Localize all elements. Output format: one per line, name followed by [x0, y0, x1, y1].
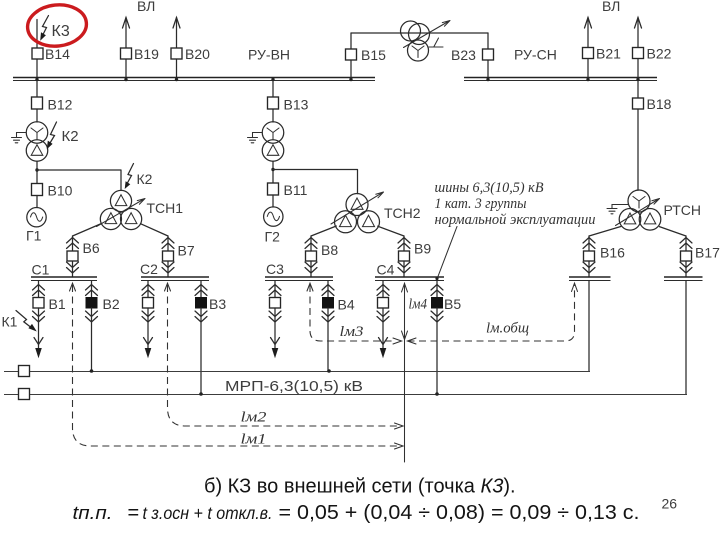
svg-text:С4: С4 — [377, 262, 395, 278]
svg-text:РТСН: РТСН — [664, 202, 701, 218]
section busbar C3 — [265, 276, 333, 278]
generator G2 — [272, 195, 274, 207]
sectionalizing switch on MRP bottom line — [19, 389, 30, 400]
svg-text:lм2: lм2 — [241, 410, 267, 426]
svg-text:В13: В13 — [284, 97, 309, 113]
busbar RU-SN double line — [464, 77, 657, 79]
svg-text:В2: В2 — [103, 296, 120, 312]
tap regulation arrow — [404, 21, 451, 48]
three-winding station service transformer TSN1 — [110, 190, 131, 211]
dimension reference line lm4 from C4 — [404, 283, 406, 462]
fault lightning K1 at feeder B1 — [16, 311, 31, 328]
feeder line with load arrows — [274, 308, 276, 348]
wire B3 down to MRP line — [200, 308, 202, 394]
svg-text:К2: К2 — [62, 128, 79, 145]
svg-text:В14: В14 — [45, 46, 70, 62]
overhead line arrow wire B21 — [587, 18, 589, 79]
busbar RU-VN double line — [13, 77, 375, 79]
svg-text:В8: В8 — [321, 242, 338, 258]
node dots on RU-SN bus — [486, 78, 489, 81]
wire B2 down to MRP line — [91, 308, 93, 371]
wire B14 column from fault point down to RU-VN bus — [36, 20, 38, 79]
sectionalizing switch on MRP top line — [19, 366, 30, 377]
measurement path lm3 from C3 — [307, 283, 313, 291]
svg-text:С2: С2 — [140, 261, 158, 277]
overhead line arrow wire B19 — [125, 18, 127, 79]
TSN1 lead to B6 — [73, 224, 102, 237]
node B3-MRP — [199, 392, 203, 396]
TSN2 lead to B8 — [311, 226, 336, 236]
fault lightning K2 at TSN1 — [126, 164, 134, 186]
RTSN tap regulation arrow — [616, 199, 660, 226]
feeder line with load arrows — [382, 308, 384, 348]
generator G1 — [36, 196, 38, 208]
wire RU-SN bus down to RTSN — [637, 81, 639, 190]
fault lightning K2 at T1 — [49, 122, 57, 146]
breaker B22 — [633, 48, 644, 59]
breaker B10 — [32, 184, 43, 196]
svg-text:С3: С3 — [266, 261, 284, 277]
node B5-MRP — [435, 392, 439, 396]
svg-text:РУ-ВН: РУ-ВН — [248, 47, 290, 63]
reserve section busbar 5 — [569, 276, 611, 278]
svg-text:В1: В1 — [49, 296, 66, 312]
section busbar C2 — [141, 276, 209, 278]
svg-text:В21: В21 — [596, 46, 621, 62]
measurement path lm2 from C2 — [165, 283, 171, 291]
reserve section busbar 6 — [664, 276, 703, 278]
svg-text:ТСН2: ТСН2 — [384, 205, 421, 221]
drawout breaker B5 (C4 to MRP) — [436, 281, 438, 298]
breaker B19 — [121, 48, 132, 59]
feeder line with load arrows — [147, 308, 149, 348]
overhead line arrow wire B20 — [176, 18, 178, 79]
svg-text:tп.п.=t з.осн + t откл.в.= 0,0: tп.п.=t з.осн + t откл.в.= 0,05 + (0,04 … — [73, 502, 640, 524]
wire B16 down to MRP top line — [588, 281, 590, 371]
breaker B12 — [36, 81, 38, 122]
svg-text:ВЛ: ВЛ — [602, 0, 620, 14]
TSN2 lead to B9 — [378, 226, 404, 236]
svg-text:В22: В22 — [647, 46, 672, 62]
RTSN neutral ground — [607, 205, 628, 214]
breaker B21 — [583, 48, 594, 59]
svg-text:К1: К1 — [2, 314, 18, 330]
transformer T1 (unit transformer of G1) upper winding with star — [26, 122, 48, 144]
wire branch to TSN1 — [37, 170, 121, 190]
breaker B18 — [633, 98, 644, 109]
svg-text:К3: К3 — [52, 23, 70, 40]
wire branch to TSN2 — [273, 170, 358, 194]
breaker B15 and riser wire — [350, 33, 352, 78]
svg-text:В5: В5 — [444, 296, 461, 312]
drawout breaker B6 (TSN1 to section C1) — [72, 236, 74, 277]
three-winding station service transformer TSN2 — [346, 194, 368, 216]
svg-text:С1: С1 — [32, 262, 50, 278]
node dots on RU-VN bus — [35, 78, 38, 81]
ground of T2 neutral — [248, 133, 263, 143]
svg-text:б) КЗ во внешней сети (точка К: б) КЗ во внешней сети (точка К3). — [204, 476, 516, 498]
wire B4 down to MRP line — [327, 308, 329, 371]
wire below T2 with branch node — [272, 161, 274, 183]
breaker B14 — [32, 48, 43, 59]
svg-text:В6: В6 — [83, 240, 100, 256]
svg-text:шины 6,3(10,5) кВ: шины 6,3(10,5) кВ — [435, 180, 544, 196]
svg-text:ТСН1: ТСН1 — [147, 200, 184, 216]
svg-text:В4: В4 — [338, 297, 355, 313]
svg-text:В7: В7 — [178, 243, 195, 259]
breaker B13 — [272, 81, 274, 122]
drawout breaker B9 (TSN2 to section C4) — [403, 236, 405, 277]
svg-text:В9: В9 — [414, 241, 431, 257]
svg-text:ВЛ: ВЛ — [137, 0, 155, 14]
svg-text:В18: В18 — [647, 96, 672, 112]
drawout breaker B17 (RTSN to reserve bus) — [685, 236, 687, 277]
overhead line arrow wire B22 — [637, 18, 639, 79]
svg-text:lм.общ: lм.общ — [486, 321, 529, 337]
TSN2 tap regulation arrow — [331, 192, 384, 224]
drawout breaker B8 (TSN2 to section C3) — [310, 236, 312, 277]
drawout breaker B3 (C2 to MRP) — [200, 281, 202, 298]
node B2-MRP — [90, 369, 94, 373]
drawout breaker B2 (C1 to MRP) — [91, 281, 93, 298]
RTSN lead to B17 — [659, 227, 686, 236]
svg-text:МРП-6,3(10,5) кВ: МРП-6,3(10,5) кВ — [225, 378, 363, 395]
svg-text:В12: В12 — [48, 97, 73, 113]
svg-text:В11: В11 — [284, 182, 308, 198]
svg-text:В19: В19 — [134, 46, 159, 62]
section busbar C4 — [375, 276, 444, 278]
ground of T1 neutral — [12, 133, 27, 143]
node B4-MRP — [327, 369, 331, 373]
svg-text:Г2: Г2 — [265, 229, 281, 245]
annotation leader line to C4 bus — [437, 227, 457, 280]
section busbar C1 — [31, 276, 97, 278]
three-winding reserve transformer RTSN — [628, 190, 650, 212]
drawout breaker feeder on C4 — [382, 281, 384, 298]
svg-text:lм4: lм4 — [409, 297, 428, 313]
drawout breaker B7 (TSN1 to section C2) — [167, 236, 169, 277]
svg-text:lм3: lм3 — [340, 324, 364, 340]
svg-text:К2: К2 — [137, 171, 153, 187]
drawout breaker feeder on C3 — [274, 281, 276, 298]
wire below T1 with branch node — [36, 161, 38, 183]
svg-text:В10: В10 — [48, 183, 73, 199]
svg-text:РУ-СН: РУ-СН — [514, 47, 557, 63]
svg-text:Г1: Г1 — [26, 228, 42, 244]
drawout breaker feeder on C2 — [147, 281, 149, 298]
svg-text:В23: В23 — [451, 47, 476, 63]
svg-text:В16: В16 — [600, 245, 625, 261]
MRP bottom line — [4, 394, 687, 396]
wire B17 down to MRP bottom line — [685, 281, 687, 394]
svg-text:В15: В15 — [361, 47, 386, 63]
svg-text:В3: В3 — [209, 296, 226, 312]
autotransformer with tap changer (coupling RU-VN / RU-SN) — [401, 21, 421, 41]
breaker B23 and riser wire — [487, 33, 489, 78]
svg-text:В20: В20 — [185, 46, 210, 62]
drawout breaker B16 (RTSN to reserve bus) — [588, 236, 590, 277]
RTSN lead to B16 — [589, 227, 621, 237]
breaker B20 — [171, 48, 182, 59]
svg-text:В17: В17 — [695, 245, 720, 261]
wire B5 down to MRP line — [436, 308, 438, 394]
drawout breaker B1 (feeder on C1) — [38, 281, 40, 298]
svg-text:нормальной эксплуатации: нормальной эксплуатации — [435, 212, 596, 228]
svg-text:26: 26 — [662, 496, 678, 512]
tie wire B15 to B23 through autotransformer — [351, 32, 488, 34]
red ellipse highlight around fault K3 — [26, 2, 89, 49]
breaker B11 — [268, 183, 279, 195]
TSN1 tap regulation arrow — [97, 199, 146, 227]
fault lightning K3 bolt — [42, 16, 49, 38]
autotransformer hook mark — [429, 38, 443, 47]
transformer T2 lower winding with delta — [262, 140, 284, 162]
TSN1 lead to B7 — [141, 224, 169, 236]
measurement path lm.obshch from reserve bus 5 — [408, 338, 417, 344]
feeder line with load arrows — [38, 308, 40, 348]
measurement path lm1 from C1 — [70, 283, 76, 291]
MRP top line — [4, 371, 590, 373]
svg-text:1 кат. 3 группы: 1 кат. 3 группы — [435, 196, 527, 212]
transformer T2 (unit transformer of G2) upper winding with star — [262, 122, 284, 144]
drawout breaker B4 (C3 to MRP) — [327, 281, 329, 298]
transformer T1 lower winding with delta — [26, 140, 48, 162]
svg-text:lм1: lм1 — [241, 432, 267, 448]
